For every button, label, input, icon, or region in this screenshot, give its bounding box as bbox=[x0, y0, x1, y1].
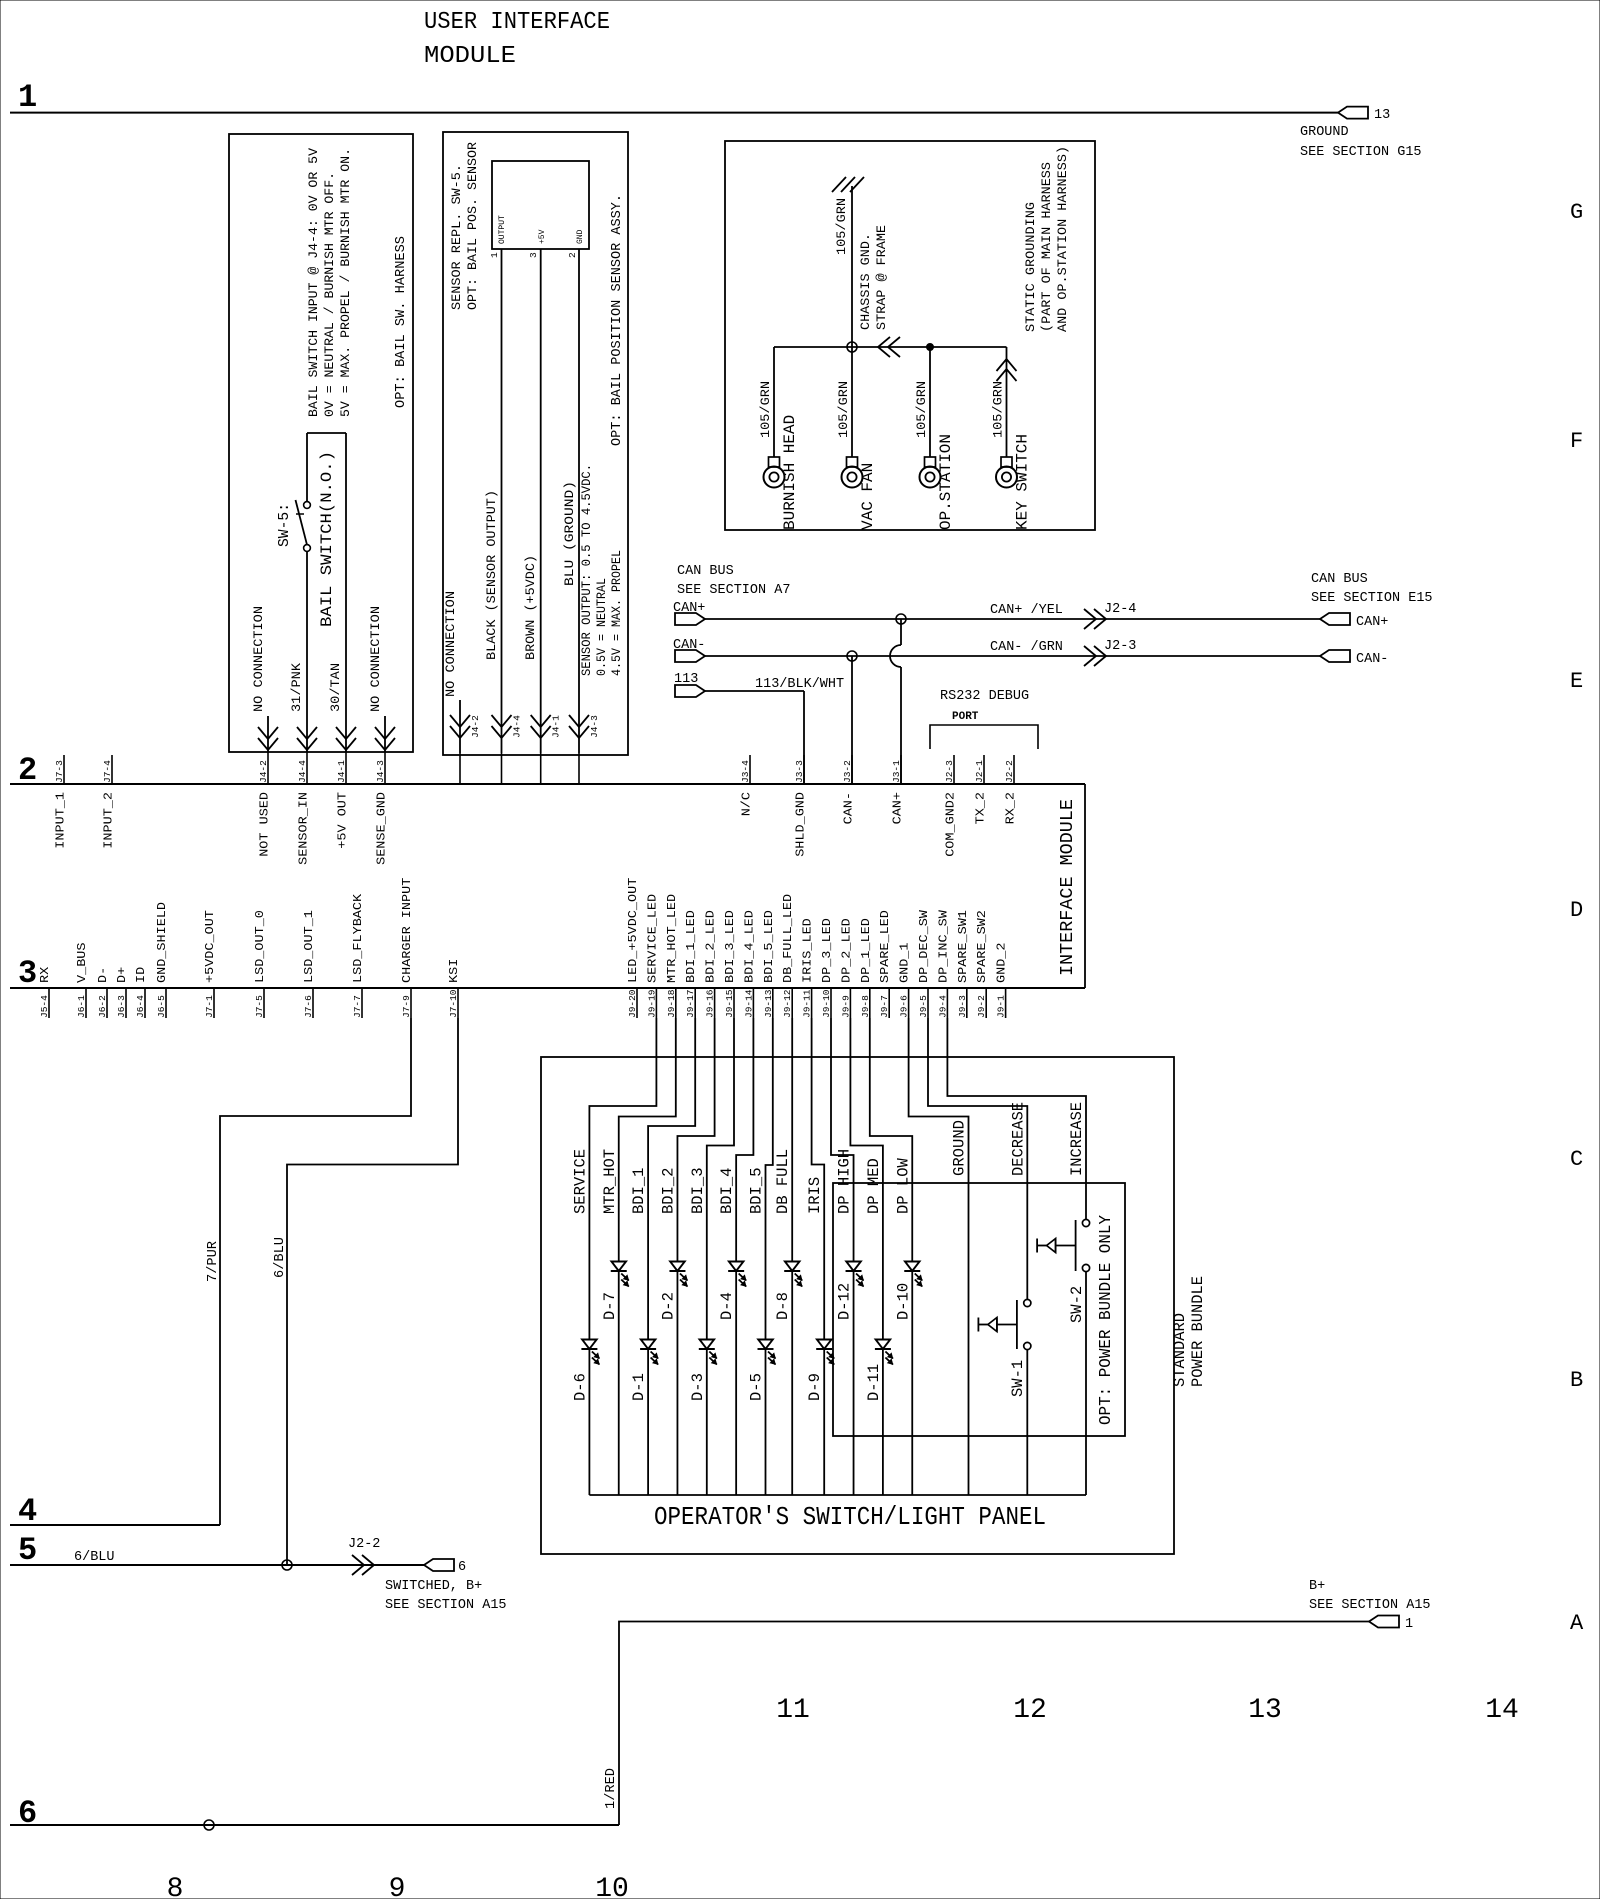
svg-text:31/PNK: 31/PNK bbox=[289, 663, 304, 712]
svg-text:J2-3: J2-3 bbox=[944, 760, 955, 783]
svg-text:11: 11 bbox=[776, 1695, 810, 1726]
label BLU (GROUND) bbox=[562, 481, 577, 586]
label CHASSIS GND. STRAP @ FRAME bbox=[858, 225, 889, 330]
pin J9-10 DP_3_LED bbox=[820, 918, 834, 1018]
svg-text:SWITCHED, B+: SWITCHED, B+ bbox=[385, 1579, 482, 1594]
label BDI_2 bbox=[659, 1168, 677, 1215]
svg-text:J7-9: J7-9 bbox=[401, 995, 412, 1018]
zone label G bbox=[1570, 200, 1583, 225]
svg-text:J9-7: J9-7 bbox=[879, 995, 890, 1018]
svg-text:J9-10: J9-10 bbox=[821, 989, 832, 1018]
LED D-3 bbox=[689, 1340, 717, 1402]
svg-text:J4-4: J4-4 bbox=[297, 760, 308, 783]
pin J7-10 KSI bbox=[447, 959, 461, 1018]
label 105/GRN (chassis) bbox=[834, 198, 849, 255]
svg-text:D-11: D-11 bbox=[865, 1364, 883, 1401]
svg-text:CAN+: CAN+ bbox=[891, 792, 905, 824]
svg-text:CAN-: CAN- bbox=[673, 638, 705, 653]
column label 8 bbox=[167, 1874, 184, 1899]
svg-text:SPARE_SW2: SPARE_SW2 bbox=[975, 910, 989, 983]
svg-text:J4-2: J4-2 bbox=[470, 715, 481, 738]
svg-text:CAN+: CAN+ bbox=[673, 601, 705, 616]
svg-text:105/GRN: 105/GRN bbox=[758, 381, 773, 438]
wire IRIS column bbox=[812, 1018, 825, 1495]
svg-text:SERVICE_LED: SERVICE_LED bbox=[645, 894, 659, 983]
note CAN BUS see section E15 bbox=[1311, 572, 1433, 606]
label DB FULL bbox=[774, 1149, 792, 1214]
svg-text:NOT USED: NOT USED bbox=[258, 792, 272, 857]
svg-text:J9-13: J9-13 bbox=[763, 989, 774, 1018]
wire BDI_2 column bbox=[677, 1018, 714, 1495]
svg-text:SW-1: SW-1 bbox=[1009, 1360, 1027, 1397]
label SENSOR_IN bbox=[297, 792, 311, 865]
svg-text:6/BLU: 6/BLU bbox=[273, 1237, 288, 1278]
svg-text:J9-15: J9-15 bbox=[724, 989, 735, 1018]
LED D-9 bbox=[806, 1340, 834, 1402]
LED D-4 bbox=[718, 1262, 746, 1321]
box OPT: BAIL POSITION SENSOR ASSY. bbox=[443, 132, 628, 755]
svg-text:J4-3: J4-3 bbox=[589, 715, 600, 738]
svg-text:GND: GND bbox=[576, 229, 585, 244]
pin J6-3 D+ bbox=[115, 967, 129, 1018]
svg-text:OPT: BAIL POS. SENSOR: OPT: BAIL POS. SENSOR bbox=[465, 142, 480, 310]
svg-text:BDI_2_LED: BDI_2_LED bbox=[704, 910, 718, 983]
svg-text:CHASSIS GND.: CHASSIS GND. bbox=[858, 233, 873, 330]
wire BDI_1 column bbox=[648, 1018, 695, 1495]
svg-text:J7-10: J7-10 bbox=[448, 989, 459, 1018]
svg-text:DP MED: DP MED bbox=[865, 1158, 883, 1214]
svg-text:CAN+ /YEL: CAN+ /YEL bbox=[990, 603, 1063, 618]
svg-text:BDI_3: BDI_3 bbox=[689, 1168, 707, 1215]
svg-text:NO CONNECTION: NO CONNECTION bbox=[251, 606, 266, 712]
wire line 6 bbox=[10, 1824, 619, 1826]
svg-text:GND_SHIELD: GND_SHIELD bbox=[155, 902, 169, 983]
junction op.station bbox=[927, 344, 934, 351]
interface module right edge bbox=[1084, 784, 1086, 988]
chevron key switch wire bbox=[997, 359, 1017, 381]
svg-text:J9-20: J9-20 bbox=[627, 989, 638, 1018]
column label 14 bbox=[1485, 1695, 1519, 1726]
pin J9-2 SPARE_SW2 bbox=[975, 910, 989, 1018]
pin J9-12 DB_FULL_LED bbox=[781, 894, 795, 1018]
svg-text:GND_2: GND_2 bbox=[995, 943, 1009, 984]
svg-text:CAN BUS: CAN BUS bbox=[1311, 572, 1368, 587]
svg-text:J9-9: J9-9 bbox=[840, 995, 851, 1018]
note bail switch input text bbox=[306, 148, 353, 417]
LED D-5 bbox=[748, 1340, 776, 1402]
svg-text:J9-1: J9-1 bbox=[996, 995, 1007, 1018]
pin J9-3 SPARE_SW1 bbox=[956, 910, 970, 1018]
svg-text:J9-8: J9-8 bbox=[860, 995, 871, 1018]
svg-text:113/BLK/WHT: 113/BLK/WHT bbox=[755, 677, 844, 692]
label BROWN (+5VDC) bbox=[523, 555, 538, 660]
svg-text:DP LOW: DP LOW bbox=[894, 1158, 912, 1214]
svg-text:SW-2: SW-2 bbox=[1068, 1286, 1086, 1323]
svg-text:J9-6: J9-6 bbox=[899, 995, 910, 1018]
svg-text:SENSE_GND: SENSE_GND bbox=[375, 792, 389, 865]
svg-text:J3-3: J3-3 bbox=[794, 760, 805, 783]
off-page connector 1 B+ bbox=[1309, 1579, 1431, 1632]
row label 4 bbox=[18, 1493, 37, 1530]
svg-text:113: 113 bbox=[674, 672, 698, 687]
svg-text:RX_2: RX_2 bbox=[1004, 792, 1018, 824]
svg-text:RX: RX bbox=[38, 966, 52, 983]
junction grounding bus bbox=[847, 342, 857, 352]
svg-text:B+: B+ bbox=[1309, 1579, 1325, 1594]
svg-text:PORT: PORT bbox=[952, 711, 979, 723]
svg-text:INTERFACE MODULE: INTERFACE MODULE bbox=[1057, 799, 1078, 976]
svg-text:SEE SECTION A15: SEE SECTION A15 bbox=[385, 1598, 507, 1613]
svg-text:D-8: D-8 bbox=[774, 1292, 792, 1320]
wire DB FULL column bbox=[791, 1018, 793, 1495]
ground terminal KEY SWITCH bbox=[991, 347, 1032, 530]
wire no connection (box2) bbox=[459, 700, 461, 753]
strap chevron bbox=[878, 337, 900, 357]
pin J6-1 V_BUS bbox=[75, 943, 89, 1019]
pin J4-1 (sensor option) bbox=[541, 715, 562, 784]
label NO CONNECTION (box2) bbox=[443, 591, 458, 697]
label DP HIGH bbox=[836, 1149, 854, 1214]
svg-text:BDI_1_LED: BDI_1_LED bbox=[684, 910, 698, 983]
wire jumper bail switch top bbox=[307, 432, 346, 434]
svg-text:J5-4: J5-4 bbox=[39, 995, 50, 1018]
svg-text:CAN-: CAN- bbox=[842, 792, 856, 824]
svg-text:SENSOR OUTPUT: 0.5 TO 4.5VDC.: SENSOR OUTPUT: 0.5 TO 4.5VDC. bbox=[579, 464, 594, 676]
svg-text:MODULE: MODULE bbox=[424, 43, 516, 70]
box OPERATOR'S SWITCH/LIGHT PANEL bbox=[541, 1057, 1174, 1554]
svg-text:6: 6 bbox=[458, 1560, 466, 1575]
wire grounding bus bbox=[774, 346, 1007, 348]
switch SW-1 bbox=[978, 1299, 1031, 1397]
off-page connector CAN+ (right) bbox=[1320, 613, 1388, 630]
svg-text:OUTPUT: OUTPUT bbox=[498, 215, 507, 244]
ground terminal BURNISH HEAD bbox=[758, 347, 799, 530]
svg-text:BURNISH HEAD: BURNISH HEAD bbox=[781, 415, 799, 530]
label 7/PUR bbox=[206, 1241, 221, 1282]
svg-text:10: 10 bbox=[595, 1874, 629, 1899]
svg-text:DP_2_LED: DP_2_LED bbox=[839, 918, 853, 983]
svg-text:NO CONNECTION: NO CONNECTION bbox=[368, 606, 383, 712]
svg-text:+5VDC_OUT: +5VDC_OUT bbox=[203, 910, 217, 983]
svg-text:2: 2 bbox=[567, 252, 578, 258]
label CAN- /GRN bbox=[990, 640, 1063, 655]
label BDI_4 bbox=[718, 1168, 736, 1215]
box static grounding bbox=[725, 141, 1095, 530]
svg-text:AND OP.STATION HARNESS): AND OP.STATION HARNESS) bbox=[1055, 146, 1070, 332]
svg-text:B: B bbox=[1570, 1368, 1583, 1393]
svg-text:3: 3 bbox=[18, 955, 37, 992]
pin J9-13 BDI_5_LED bbox=[762, 910, 776, 1018]
wire line 2 interface module top bbox=[10, 783, 1085, 785]
wire CAN- bbox=[705, 655, 1320, 657]
svg-text:DP_DEC_SW: DP_DEC_SW bbox=[917, 909, 931, 983]
row label 6 bbox=[18, 1795, 37, 1832]
sensor block bail position sensor bbox=[489, 161, 589, 258]
chassis ground symbol bbox=[832, 177, 864, 347]
label 31/PNK bbox=[289, 663, 304, 712]
pin J9-20 LED_+5VDC_OUT bbox=[626, 878, 640, 1018]
row label 3 bbox=[18, 955, 37, 992]
svg-text:J9-5: J9-5 bbox=[918, 995, 929, 1018]
svg-text:OPT: BAIL POSITION SENSOR ASSY: OPT: BAIL POSITION SENSOR ASSY. bbox=[610, 194, 625, 446]
pin J4-2 (sensor option) bbox=[460, 715, 481, 784]
pin J9-14 BDI_4_LED bbox=[742, 910, 756, 1018]
svg-text:J6-1: J6-1 bbox=[76, 995, 87, 1018]
LED D-12 bbox=[836, 1262, 864, 1321]
pin J9-8 DP_1_LED bbox=[859, 918, 873, 1018]
svg-text:IRIS: IRIS bbox=[806, 1177, 824, 1214]
wire GROUND column bbox=[909, 1018, 969, 1495]
svg-text:D-7: D-7 bbox=[601, 1292, 619, 1320]
label GROUND bbox=[951, 1120, 969, 1176]
svg-text:SENSOR REPL. SW-5.: SENSOR REPL. SW-5. bbox=[449, 164, 464, 310]
svg-text:5: 5 bbox=[18, 1532, 37, 1569]
svg-text:J3-2: J3-2 bbox=[842, 760, 853, 783]
pin J7-5 LSD_OUT_0 bbox=[253, 910, 267, 1018]
svg-text:DP_3_LED: DP_3_LED bbox=[820, 918, 834, 983]
svg-text:TX_2: TX_2 bbox=[974, 792, 988, 824]
pin J9-18 MTR_HOT_LED bbox=[665, 894, 679, 1018]
junction line 6 bbox=[204, 1820, 214, 1830]
svg-text:SHLD_GND: SHLD_GND bbox=[794, 792, 808, 857]
label INTERFACE MODULE bbox=[1057, 799, 1078, 976]
wire line 3 interface module bottom bbox=[10, 987, 1085, 989]
svg-text:J6-3: J6-3 bbox=[116, 995, 127, 1018]
label DECREASE bbox=[1009, 1102, 1027, 1176]
wire DP HIGH column bbox=[831, 1018, 854, 1495]
pin J2-3 COM_GND2 bbox=[944, 755, 958, 857]
svg-text:F: F bbox=[1570, 429, 1583, 454]
wire BROWN +5VDC pin3 bbox=[540, 249, 542, 753]
pin J9-17 BDI_1_LED bbox=[684, 910, 698, 1018]
junction line 5 bbox=[282, 1560, 292, 1570]
svg-text:+5V OUT: +5V OUT bbox=[336, 792, 350, 849]
label SENSOR REPL. SW-5. bbox=[449, 142, 480, 310]
svg-text:V_BUS: V_BUS bbox=[75, 943, 89, 984]
svg-text:4.5V = MAX. PROPEL: 4.5V = MAX. PROPEL bbox=[609, 550, 624, 676]
caption OPERATOR'S SWITCH/LIGHT PANEL bbox=[654, 1502, 1046, 1532]
wire BLU ground pin2 bbox=[578, 249, 580, 753]
pin J9-11 IRIS_LED bbox=[801, 918, 815, 1018]
chevron J2-4 bbox=[1084, 602, 1136, 629]
svg-text:INPUT_1: INPUT_1 bbox=[54, 792, 68, 849]
svg-text:BDI_3_LED: BDI_3_LED bbox=[723, 910, 737, 983]
svg-text:A: A bbox=[1570, 1611, 1584, 1636]
label BDI_5 bbox=[748, 1168, 766, 1215]
label BDI_1 bbox=[630, 1168, 648, 1215]
svg-text:KSI: KSI bbox=[447, 959, 461, 983]
column label 10 bbox=[595, 1874, 629, 1899]
pin J7-1 +5VDC_OUT bbox=[203, 910, 217, 1018]
switch SW-2 bbox=[1037, 1219, 1090, 1323]
svg-text:GROUND: GROUND bbox=[1300, 125, 1349, 140]
svg-text:J7-1: J7-1 bbox=[204, 995, 215, 1018]
svg-text:LSD_OUT_1: LSD_OUT_1 bbox=[302, 910, 316, 983]
svg-text:D-4: D-4 bbox=[718, 1292, 736, 1320]
label +5V OUT bbox=[336, 792, 350, 849]
svg-text:D-: D- bbox=[96, 967, 110, 983]
svg-text:J4-3: J4-3 bbox=[375, 760, 386, 783]
pin J6-4 ID bbox=[134, 967, 148, 1018]
svg-text:J9-17: J9-17 bbox=[685, 989, 696, 1018]
chevron J2-3 bbox=[1084, 639, 1136, 666]
svg-text:1: 1 bbox=[1405, 1617, 1413, 1632]
svg-text:J7-4: J7-4 bbox=[102, 760, 113, 783]
pin J9-6 GND_1 bbox=[898, 943, 912, 1019]
chevron wire end (box2) bbox=[531, 715, 551, 738]
label RS232 DEBUG PORT bbox=[930, 689, 1038, 749]
svg-text:J9-18: J9-18 bbox=[666, 989, 677, 1018]
svg-text:SEE SECTION E15: SEE SECTION E15 bbox=[1311, 591, 1433, 606]
pin J9-5 DP_DEC_SW bbox=[917, 909, 931, 1018]
svg-text:SPARE_LED: SPARE_LED bbox=[878, 910, 892, 983]
ground terminal VAC FAN bbox=[836, 347, 877, 530]
LED D-2 bbox=[659, 1262, 687, 1321]
svg-text:J9-2: J9-2 bbox=[976, 995, 987, 1018]
svg-text:J9-16: J9-16 bbox=[705, 989, 716, 1018]
pin J9-19 SERVICE_LED bbox=[645, 894, 659, 1018]
svg-text:1: 1 bbox=[18, 79, 37, 116]
label OPT: BAIL POSITION SENSOR ASSY. bbox=[610, 194, 625, 446]
pin J7-7 LSD_FLYBACK bbox=[351, 893, 365, 1018]
svg-text:J4-2: J4-2 bbox=[258, 760, 269, 783]
svg-text:STATIC GROUNDING: STATIC GROUNDING bbox=[1023, 202, 1038, 332]
svg-text:J9-19: J9-19 bbox=[646, 989, 657, 1018]
svg-text:SEE SECTION A15: SEE SECTION A15 bbox=[1309, 1598, 1431, 1613]
svg-text:8: 8 bbox=[167, 1874, 184, 1899]
svg-text:BDI_5_LED: BDI_5_LED bbox=[762, 910, 776, 983]
wire BLACK sensor output pin1 bbox=[501, 249, 503, 753]
label STANDARD POWER BUNDLE bbox=[1171, 1276, 1207, 1387]
svg-text:NO CONNECTION: NO CONNECTION bbox=[443, 591, 458, 697]
svg-text:DP_INC_SW: DP_INC_SW bbox=[936, 909, 950, 983]
svg-text:E: E bbox=[1570, 669, 1583, 694]
wire line 1 ground bus bbox=[10, 112, 1338, 114]
svg-text:12: 12 bbox=[1013, 1695, 1047, 1726]
pin J7-3 INPUT_1 bbox=[54, 755, 68, 849]
svg-text:J3-4: J3-4 bbox=[740, 760, 751, 783]
note sensor output voltages bbox=[579, 464, 624, 676]
chevron wire end bbox=[258, 727, 278, 750]
svg-text:BAIL SWITCH(N.O.): BAIL SWITCH(N.O.) bbox=[318, 451, 336, 627]
svg-text:BDI_2: BDI_2 bbox=[659, 1168, 677, 1215]
svg-text:SENSOR_IN: SENSOR_IN bbox=[297, 792, 311, 865]
svg-text:POWER BUNDLE: POWER BUNDLE bbox=[1189, 1276, 1207, 1387]
svg-text:D-9: D-9 bbox=[806, 1373, 824, 1401]
LED D-8 bbox=[774, 1262, 802, 1321]
wire CAN+ drop to J3-1 with hop bbox=[890, 619, 901, 784]
ground terminal OP.STATION bbox=[914, 347, 955, 530]
svg-text:STANDARD: STANDARD bbox=[1171, 1313, 1189, 1387]
wire INCREASE column bbox=[947, 1018, 1086, 1495]
label MTR_HOT bbox=[601, 1149, 619, 1214]
svg-text:D-3: D-3 bbox=[689, 1373, 707, 1401]
svg-text:13: 13 bbox=[1374, 108, 1390, 123]
off-page connector CAN- (right) bbox=[1320, 650, 1388, 667]
LED D-1 bbox=[630, 1340, 658, 1402]
svg-text:D-12: D-12 bbox=[836, 1283, 854, 1320]
chevron wire end (box2) bbox=[569, 715, 589, 738]
pin J2-1 TX_2 bbox=[974, 755, 988, 824]
svg-text:J9-3: J9-3 bbox=[957, 995, 968, 1018]
column label 9 bbox=[389, 1874, 406, 1899]
svg-text:OPERATOR'S SWITCH/LIGHT PANEL: OPERATOR'S SWITCH/LIGHT PANEL bbox=[654, 1502, 1046, 1532]
pin J4-3 bbox=[375, 752, 386, 784]
svg-text:14: 14 bbox=[1485, 1695, 1519, 1726]
svg-text:USER INTERFACE: USER INTERFACE bbox=[424, 9, 610, 36]
svg-text:STRAP @ FRAME: STRAP @ FRAME bbox=[874, 225, 889, 330]
svg-text:J7-7: J7-7 bbox=[352, 995, 363, 1018]
chevron wire end bbox=[375, 727, 395, 750]
pin J3-3 SHLD_GND bbox=[794, 755, 808, 857]
svg-text:6: 6 bbox=[18, 1795, 37, 1832]
svg-text:BAIL SWITCH INPUT @ J4-4: 0V O: BAIL SWITCH INPUT @ J4-4: 0V OR 5V bbox=[306, 148, 321, 417]
off-page connector CAN+ (left) bbox=[673, 601, 705, 625]
box OPT: POWER BUNDLE ONLY bbox=[833, 1183, 1125, 1436]
svg-text:D-10: D-10 bbox=[894, 1283, 912, 1320]
pin J4-2 bbox=[258, 752, 269, 784]
pin J4-1 bbox=[336, 752, 347, 784]
label IRIS bbox=[806, 1177, 824, 1214]
svg-text:SPARE_SW1: SPARE_SW1 bbox=[956, 910, 970, 983]
label OPT: POWER BUNDLE ONLY bbox=[1096, 1215, 1115, 1425]
svg-text:DP HIGH: DP HIGH bbox=[836, 1149, 854, 1214]
wire DECREASE column bbox=[928, 1018, 1027, 1495]
wire 7/PUR charger input to line 4 bbox=[220, 1018, 411, 1525]
svg-text:J2-1: J2-1 bbox=[974, 760, 985, 783]
row label 1 bbox=[18, 79, 37, 116]
pin J7-9 CHARGER INPUT bbox=[400, 878, 414, 1018]
wire MTR_HOT column bbox=[619, 1018, 676, 1495]
svg-text:D-5: D-5 bbox=[748, 1373, 766, 1401]
row label 2 bbox=[18, 752, 37, 789]
label CAN+ /YEL bbox=[990, 603, 1063, 618]
svg-text:105/GRN: 105/GRN bbox=[991, 381, 1006, 438]
label NO CONNECTION (J4-3) bbox=[368, 606, 383, 712]
zone label D bbox=[1570, 898, 1583, 923]
label SW-5: bbox=[276, 503, 293, 547]
svg-text:0.5V = NEUTRAL: 0.5V = NEUTRAL bbox=[594, 578, 609, 676]
label SERVICE bbox=[571, 1149, 589, 1214]
wire BDI_4 column bbox=[736, 1018, 753, 1495]
wire 1/RED B+ feed bbox=[604, 1622, 1369, 1826]
svg-text:J2-2: J2-2 bbox=[348, 1537, 380, 1552]
wire BDI_5 column bbox=[766, 1018, 773, 1495]
off-page connector 6 SWITCHED B+ bbox=[385, 1559, 507, 1613]
svg-text:KEY SWITCH: KEY SWITCH bbox=[1014, 434, 1032, 530]
svg-text:LSD_OUT_0: LSD_OUT_0 bbox=[253, 910, 267, 983]
pin J4-3 (sensor option) bbox=[579, 715, 600, 784]
pin J9-9 DP_2_LED bbox=[839, 918, 853, 1018]
svg-text:LSD_FLYBACK: LSD_FLYBACK bbox=[351, 893, 365, 983]
label DP MED bbox=[865, 1158, 883, 1214]
box OPT: BAIL SW. HARNESS bbox=[229, 134, 413, 752]
svg-text:0V = NEUTRAL / BURNISH MTR OFF: 0V = NEUTRAL / BURNISH MTR OFF. bbox=[322, 172, 337, 417]
label OPT: BAIL SW. HARNESS bbox=[394, 236, 409, 408]
label BLACK (SENSOR OUTPUT) bbox=[484, 490, 499, 660]
svg-text:DP_1_LED: DP_1_LED bbox=[859, 918, 873, 983]
svg-text:30/TAN: 30/TAN bbox=[328, 663, 343, 712]
column label 13 bbox=[1248, 1695, 1282, 1726]
svg-text:1/RED: 1/RED bbox=[604, 1768, 619, 1809]
column label 11 bbox=[776, 1695, 810, 1726]
svg-text:J6-5: J6-5 bbox=[156, 995, 167, 1018]
wire CAN+ bbox=[705, 618, 1320, 620]
svg-text:IRIS_LED: IRIS_LED bbox=[801, 918, 815, 983]
svg-text:J9-4: J9-4 bbox=[937, 995, 948, 1018]
svg-text:COM_GND2: COM_GND2 bbox=[944, 792, 958, 857]
svg-text:SW-5:: SW-5: bbox=[276, 503, 293, 547]
